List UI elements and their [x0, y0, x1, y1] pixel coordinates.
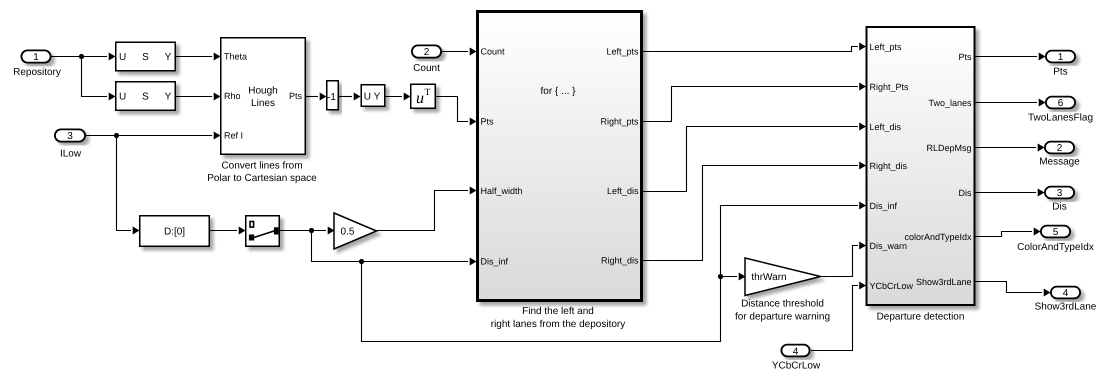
- svg-text:Dis_warn: Dis_warn: [870, 241, 908, 251]
- svg-text:Show3rdLane: Show3rdLane: [1035, 302, 1097, 313]
- svg-text:Left_dis: Left_dis: [870, 122, 902, 132]
- svg-text:5: 5: [1053, 227, 1059, 238]
- svg-text:U: U: [119, 52, 126, 63]
- svg-text:0.5: 0.5: [341, 227, 355, 238]
- svg-text:Two_lanes: Two_lanes: [928, 98, 972, 108]
- svg-text:Polar to Cartesian space: Polar to Cartesian space: [207, 173, 317, 184]
- svg-text:S: S: [142, 52, 149, 63]
- svg-text:Departure detection: Departure detection: [877, 312, 965, 323]
- svg-text:Pts: Pts: [481, 116, 495, 126]
- svg-text:thrWarn: thrWarn: [751, 272, 786, 283]
- svg-text:U: U: [119, 92, 126, 103]
- svg-text:Right_dis: Right_dis: [870, 161, 908, 171]
- svg-text:2: 2: [1057, 143, 1063, 154]
- svg-text:Half_width: Half_width: [481, 186, 523, 196]
- svg-text:colorAndTypeIdx: colorAndTypeIdx: [904, 232, 972, 242]
- svg-text:u: u: [416, 90, 424, 107]
- svg-text:1: 1: [33, 52, 39, 63]
- svg-text:Right_dis: Right_dis: [601, 255, 639, 265]
- svg-text:Y: Y: [165, 92, 172, 103]
- svg-text:3: 3: [1057, 188, 1063, 199]
- svg-text:Find the left and: Find the left and: [522, 306, 594, 317]
- svg-text:Right_pts: Right_pts: [600, 116, 639, 126]
- svg-text:YCbCrLow: YCbCrLow: [772, 361, 821, 372]
- svg-text:4: 4: [1063, 288, 1069, 299]
- svg-text:U Y: U Y: [364, 92, 381, 103]
- svg-text:Count: Count: [413, 63, 440, 74]
- svg-text:4: 4: [793, 347, 799, 358]
- svg-text:T: T: [425, 88, 431, 98]
- svg-text:Message: Message: [1039, 157, 1080, 168]
- svg-text:Hough: Hough: [248, 86, 277, 97]
- svg-text:-1: -1: [327, 92, 336, 103]
- svg-text:3: 3: [67, 131, 73, 142]
- svg-text:Pts: Pts: [289, 91, 303, 101]
- svg-text:ILow: ILow: [60, 149, 82, 160]
- svg-text:Convert lines from: Convert lines from: [221, 161, 302, 172]
- svg-text:for { ... }: for { ... }: [540, 86, 576, 97]
- svg-text:Left_pts: Left_pts: [606, 46, 639, 56]
- svg-text:Left_dis: Left_dis: [607, 186, 639, 196]
- svg-text:Dis_inf: Dis_inf: [481, 256, 509, 266]
- svg-text:Dis: Dis: [1052, 202, 1066, 213]
- svg-text:Left_pts: Left_pts: [870, 42, 903, 52]
- svg-text:2: 2: [424, 47, 430, 58]
- svg-text:Y: Y: [165, 52, 172, 63]
- svg-text:D:[0]: D:[0]: [164, 227, 185, 238]
- svg-text:Show3rdLane: Show3rdLane: [916, 277, 972, 287]
- svg-text:TwoLanesFlag: TwoLanesFlag: [1028, 113, 1093, 124]
- svg-text:Rho: Rho: [224, 91, 241, 101]
- svg-text:Pts: Pts: [1053, 67, 1067, 78]
- svg-text:right lanes from the depositor: right lanes from the depository: [491, 319, 626, 330]
- svg-text:Theta: Theta: [224, 52, 247, 62]
- svg-text:S: S: [142, 92, 149, 103]
- svg-text:for departure warning: for departure warning: [735, 312, 830, 323]
- svg-text:RLDepMsg: RLDepMsg: [926, 143, 971, 153]
- svg-text:Dis_inf: Dis_inf: [870, 201, 898, 211]
- svg-text:1: 1: [1058, 52, 1064, 63]
- svg-text:Distance threshold: Distance threshold: [741, 299, 824, 310]
- svg-text:Repository: Repository: [13, 67, 61, 78]
- svg-text:Ref I: Ref I: [224, 131, 243, 141]
- svg-text:Pts: Pts: [958, 52, 972, 62]
- svg-text:Lines: Lines: [251, 98, 275, 109]
- svg-text:Count: Count: [481, 46, 506, 56]
- svg-text:YCbCrLow: YCbCrLow: [870, 281, 914, 291]
- svg-text:ColorAndTypeIdx: ColorAndTypeIdx: [1017, 242, 1094, 253]
- svg-text:Dis: Dis: [959, 188, 972, 198]
- svg-text:Right_Pts: Right_Pts: [870, 82, 910, 92]
- svg-text:6: 6: [1058, 98, 1064, 109]
